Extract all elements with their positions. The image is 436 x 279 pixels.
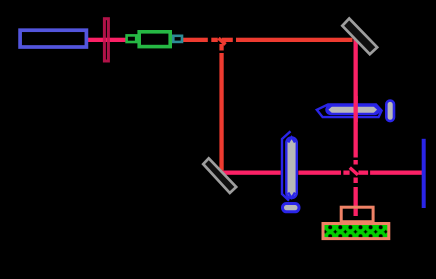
vial base <box>283 204 300 212</box>
power meter body (crosshatched) <box>323 224 389 239</box>
converter input coupler <box>127 35 137 42</box>
wire: red beam converter to beamsplitter BS1 (dashed near BS1) <box>183 38 353 42</box>
sample cell right window chevron <box>374 105 379 114</box>
power meter pedestal <box>341 207 373 222</box>
mirror M2 (bottom left) <box>203 158 236 193</box>
sample cell left window chevron <box>327 105 332 114</box>
wire: pink beam from laser to converter <box>88 38 127 42</box>
mirror M1 (top right) <box>342 19 377 55</box>
wire: pink beam over sample cell <box>354 96 358 122</box>
wire: pink beam below BS2 into power meter <box>354 178 358 217</box>
reference vial holder <box>282 131 291 200</box>
laser <box>20 30 86 47</box>
reference vial body <box>286 138 297 199</box>
wire: pink beam down from mirror M1 to beamsplitter BS2 <box>354 38 358 165</box>
reference vial top chevron <box>288 137 295 142</box>
beamsplitter BS2 <box>350 168 358 175</box>
wire: red beam down from BS1 to mirror M2 <box>219 44 223 170</box>
microphone capsule <box>386 101 394 122</box>
sample cell holder (trough) <box>317 104 382 117</box>
photodiode bar <box>422 139 426 208</box>
reference vial bottom chevron <box>288 193 295 198</box>
beamsplitter BS1 <box>219 38 226 44</box>
chopper <box>104 19 108 61</box>
converter box <box>139 32 170 47</box>
sample cell body <box>327 106 380 114</box>
wire: pink beam from mirror M2 right to detector (dashed near BS2) <box>220 171 422 175</box>
converter output coupler (teal) <box>173 36 182 42</box>
